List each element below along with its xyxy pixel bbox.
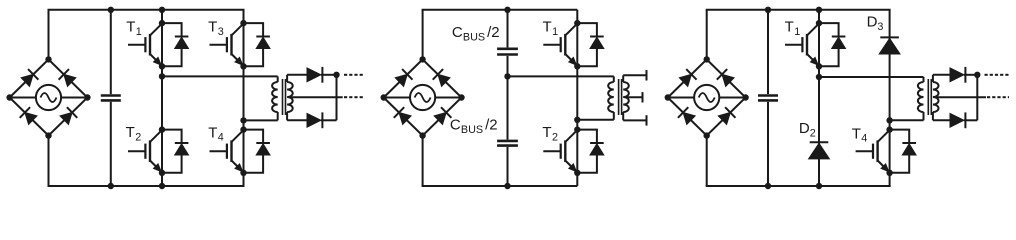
- diode circuit3 bridge lower-right: [718, 107, 735, 124]
- wire circuit3 right branch to primary bottom: [890, 119, 924, 121]
- svg-text:T: T: [126, 124, 135, 141]
- junction circuit1 leg1 primary tap: [159, 73, 165, 79]
- junction T3 collector node: [240, 20, 246, 26]
- junction T4 emitter node: [240, 170, 246, 176]
- svg-text:4: 4: [218, 132, 224, 144]
- inductor circuit1 transformer secondary winding: [287, 75, 293, 121]
- svg-text:BUS: BUS: [463, 31, 485, 43]
- svg-text:T: T: [543, 19, 552, 36]
- diode circuit1 bridge upper-left: [21, 69, 38, 86]
- diode circuit1 output rectifier bottom: [307, 112, 337, 128]
- label CBUS/2 upper: [452, 24, 485, 43]
- wire circuit1 transformer core: [283, 79, 286, 115]
- diode circuit3 output rectifier bottom: [950, 112, 977, 128]
- svg-text:T: T: [208, 19, 217, 36]
- junction circuit2 bridge left vertex: [381, 94, 387, 100]
- junction circuit3 bridge left vertex: [665, 94, 671, 100]
- svg-text:1: 1: [552, 26, 558, 38]
- wire circuit1 output cathode link: [336, 75, 338, 121]
- wire circuit1 secondary bottom lead: [287, 119, 307, 121]
- capacitor C-bus/2 upper circuit2: [497, 49, 518, 55]
- wire circuit2 bottom rail: [422, 185, 578, 187]
- junction T2 emitter node: [159, 170, 165, 176]
- junction T4 collector node: [240, 126, 246, 132]
- wire circuit1 bridge to bottom rail: [48, 136, 50, 186]
- label CBUS/2 lower: [450, 117, 483, 136]
- svg-text:3: 3: [877, 21, 883, 33]
- diode circuit1 output rectifier top: [307, 67, 337, 83]
- junction circuit1 bridge left vertex: [6, 94, 12, 100]
- junction circuit1 capacitor on bottom rail: [108, 183, 114, 189]
- diode antiparallel of T1: [577, 23, 604, 66]
- wire circuit3 secondary bottom lead: [933, 119, 951, 121]
- junction circuit1 bridge right vertex: [84, 94, 90, 100]
- junction T2 emitter node: [574, 170, 580, 176]
- label T4 (circuit3): [852, 125, 868, 144]
- diode antiparallel of T1: [819, 23, 846, 66]
- wire C-bus circuit3 upper lead: [767, 10, 769, 94]
- wire circuit1 leg1 to primary top: [162, 75, 278, 77]
- wire circuit3 center tap lead: [936, 96, 986, 98]
- wire circuit3 output positive continuation (dashed): [985, 74, 1009, 76]
- diode antiparallel of T4: [890, 130, 917, 173]
- junction circuit2 leg primary tap: [574, 117, 580, 123]
- transistor T1: [128, 24, 162, 66]
- svg-text:/2: /2: [485, 117, 498, 134]
- svg-text:D: D: [867, 13, 878, 30]
- wire circuit3 top rail: [706, 9, 891, 11]
- wire circuit2 transformer core: [619, 79, 622, 115]
- wire circuit1 leg T3-T4: [243, 10, 245, 186]
- inductor circuit3 transformer primary winding: [918, 77, 924, 120]
- junction circuit1 leg2 primary tap: [240, 117, 246, 123]
- diode antiparallel of T3: [244, 23, 271, 66]
- junction circuit3 capacitor on top rail: [765, 7, 771, 13]
- diode antiparallel of T1: [162, 23, 189, 66]
- wire circuit3 AC input connections: [668, 97, 746, 99]
- svg-text:BUS: BUS: [461, 124, 483, 136]
- wire circuit1 output positive continuation (dashed): [344, 74, 363, 76]
- transistor T4: [856, 130, 890, 172]
- transistor T2: [128, 130, 162, 172]
- wire circuit1 output return continuation (dashed): [344, 96, 363, 98]
- transistor T1: [543, 24, 577, 66]
- diode circuit2 bridge upper-right: [433, 69, 450, 86]
- wire circuit3 bridge diamond edges: [668, 59, 746, 135]
- svg-text:2: 2: [552, 132, 558, 144]
- junction circuit3 left branch bottom rail: [816, 183, 822, 189]
- inductor circuit1 transformer primary winding: [272, 76, 278, 120]
- wire circuit3 bridge to bottom rail: [706, 136, 708, 186]
- junction T2 collector node: [159, 126, 165, 132]
- AC source circuit2: [410, 85, 435, 110]
- wire C-bus/2 upper circuit2 upper lead: [507, 10, 509, 48]
- wire C-bus/2 lower circuit2 upper lead: [507, 76, 509, 139]
- svg-text:C: C: [452, 24, 463, 41]
- wire C-bus/2 upper circuit2 lower lead: [507, 56, 509, 77]
- wire C-bus/2 lower circuit2 lower lead: [507, 147, 509, 186]
- diode circuit3 bridge upper-left: [679, 69, 696, 86]
- svg-text:T: T: [208, 124, 217, 141]
- transistor T2: [543, 130, 577, 172]
- junction circuit1 leg1 bottom rail: [159, 183, 165, 189]
- wire circuit2 AC input connections: [384, 97, 462, 99]
- junction circuit1 bridge bottom vertex: [45, 132, 51, 138]
- diode D2: [809, 142, 830, 159]
- junction circuit1 bridge top vertex: [45, 56, 51, 62]
- transistor T3: [210, 24, 244, 66]
- diode antiparallel of T2: [577, 130, 604, 173]
- wire circuit1 bridge to top rail: [48, 10, 50, 60]
- junction T2 collector node: [574, 126, 580, 132]
- svg-text:2: 2: [135, 132, 141, 144]
- junction circuit2 capacitor string on top rail: [504, 7, 510, 13]
- capacitor C-bus circuit3: [758, 96, 778, 101]
- wire circuit1 leg T1-T2: [161, 10, 163, 186]
- junction circuit3 left branch primary tap: [816, 74, 822, 80]
- wire circuit1 AC input connections: [10, 97, 88, 99]
- junction circuit1 leg1 top rail: [159, 7, 165, 13]
- label T2 (circuit2): [542, 124, 558, 143]
- label T3: [208, 19, 224, 38]
- wire circuit3 output return continuation (dashed): [987, 96, 1009, 98]
- wire circuit2 secondary bottom terminal: [623, 115, 646, 125]
- wire circuit1 leg2 to primary bottom: [244, 119, 278, 121]
- transistor T4: [210, 130, 244, 172]
- wire circuit3 secondary top lead: [933, 74, 950, 76]
- diode circuit1 bridge lower-left: [20, 107, 37, 124]
- svg-text:3: 3: [218, 26, 224, 38]
- junction T1 emitter node: [574, 63, 580, 69]
- svg-text:/2: /2: [487, 24, 500, 41]
- wire C-bus circuit1 lower lead: [110, 102, 112, 186]
- svg-text:2: 2: [810, 128, 816, 140]
- wire circuit3 T1 emitter to primary top: [819, 76, 924, 78]
- AC source circuit1: [36, 85, 61, 110]
- junction T1 collector node: [816, 20, 822, 26]
- junction T4 collector node: [886, 126, 892, 132]
- wire circuit2 bridge to top rail: [422, 10, 424, 60]
- junction T1 collector node: [574, 20, 580, 26]
- junction circuit2 capacitor midpoint tap: [504, 73, 510, 79]
- diode circuit1 bridge upper-right: [59, 69, 76, 86]
- svg-text:1: 1: [136, 26, 142, 38]
- junction T1 emitter node: [159, 63, 165, 69]
- junction circuit2 bridge bottom vertex: [419, 132, 425, 138]
- junction circuit3 left branch top rail: [816, 7, 822, 13]
- junction circuit2 bridge right vertex: [458, 94, 464, 100]
- wire C-bus circuit3 lower lead: [767, 102, 769, 186]
- junction circuit3 output positive node: [974, 72, 980, 78]
- wire circuit3 bridge to top rail: [706, 10, 708, 60]
- diode circuit1 bridge lower-right: [60, 107, 77, 124]
- wire circuit3 right branch: [889, 10, 891, 186]
- diode circuit3 output rectifier top: [950, 67, 977, 83]
- wire circuit2 secondary center tap terminal: [626, 92, 642, 102]
- svg-text:T: T: [785, 19, 794, 36]
- capacitor C-bus/2 lower circuit2: [497, 141, 518, 146]
- junction circuit3 right branch primary tap: [886, 117, 892, 123]
- wire circuit2 top rail: [422, 9, 578, 11]
- transistor T1: [785, 24, 819, 66]
- inductor circuit2 transformer secondary winding: [623, 75, 629, 120]
- wire circuit3 output cathode link: [976, 75, 978, 121]
- label T2: [126, 124, 142, 143]
- junction circuit3 bridge right vertex: [742, 94, 748, 100]
- wire circuit2 secondary top terminal: [623, 70, 646, 80]
- wire circuit3 left branch: [818, 10, 820, 186]
- svg-text:D: D: [799, 120, 810, 137]
- junction T3 emitter node: [240, 63, 246, 69]
- wire circuit1 bottom rail: [48, 185, 245, 187]
- AC source circuit3: [694, 85, 719, 110]
- label T1: [126, 19, 142, 38]
- label D3: [867, 13, 884, 32]
- wire circuit1 center tap lead: [290, 96, 343, 98]
- inductor circuit3 transformer secondary winding: [933, 75, 939, 121]
- svg-text:T: T: [542, 124, 551, 141]
- diode D3: [879, 37, 900, 54]
- wire circuit1 secondary top lead: [287, 74, 307, 76]
- svg-text:1: 1: [794, 26, 800, 38]
- svg-text:C: C: [450, 117, 461, 134]
- wire circuit2 bridge diamond edges: [384, 59, 462, 135]
- label T1 (circuit3): [785, 19, 801, 38]
- junction circuit1 capacitor on top rail: [108, 7, 114, 13]
- wire circuit2 leg to primary bottom: [577, 119, 614, 121]
- wire circuit1 bridge diamond edges: [10, 59, 88, 135]
- diode circuit2 bridge lower-left: [394, 107, 411, 124]
- junction circuit2 bridge top vertex: [419, 56, 425, 62]
- diode antiparallel of T2: [162, 130, 189, 173]
- junction circuit3 capacitor on bottom rail: [765, 183, 771, 189]
- diode circuit2 bridge lower-right: [434, 107, 451, 124]
- svg-text:4: 4: [861, 133, 867, 145]
- wire circuit3 transformer core: [928, 79, 931, 115]
- label T4: [208, 124, 224, 143]
- junction T4 emitter node: [886, 170, 892, 176]
- label D2: [799, 120, 816, 139]
- junction circuit3 bridge bottom vertex: [704, 132, 710, 138]
- svg-text:T: T: [126, 19, 135, 36]
- junction T1 emitter node: [816, 63, 822, 69]
- wire circuit2 leg T1-T2: [576, 10, 578, 186]
- diode antiparallel of T4: [244, 130, 271, 173]
- capacitor C-bus circuit1: [101, 96, 121, 101]
- wire circuit2 bridge to bottom rail: [422, 136, 424, 186]
- wire C-bus circuit1 upper lead: [110, 10, 112, 94]
- wire circuit1 top rail: [48, 9, 245, 11]
- junction circuit1 output positive node: [333, 72, 339, 78]
- junction T1 collector node: [159, 20, 165, 26]
- wire circuit3 bottom rail: [706, 185, 891, 187]
- junction circuit3 bridge top vertex: [704, 56, 710, 62]
- svg-text:T: T: [852, 125, 861, 142]
- inductor circuit2 transformer primary winding: [608, 76, 614, 119]
- junction circuit2 capacitor string on bottom rail: [504, 183, 510, 189]
- diode circuit3 bridge upper-right: [717, 69, 734, 86]
- wire circuit2 cap midpoint to primary top: [508, 75, 614, 77]
- diode circuit2 bridge upper-left: [395, 69, 412, 86]
- label T1 (circuit2): [543, 19, 559, 38]
- diode circuit3 bridge lower-left: [678, 107, 695, 124]
